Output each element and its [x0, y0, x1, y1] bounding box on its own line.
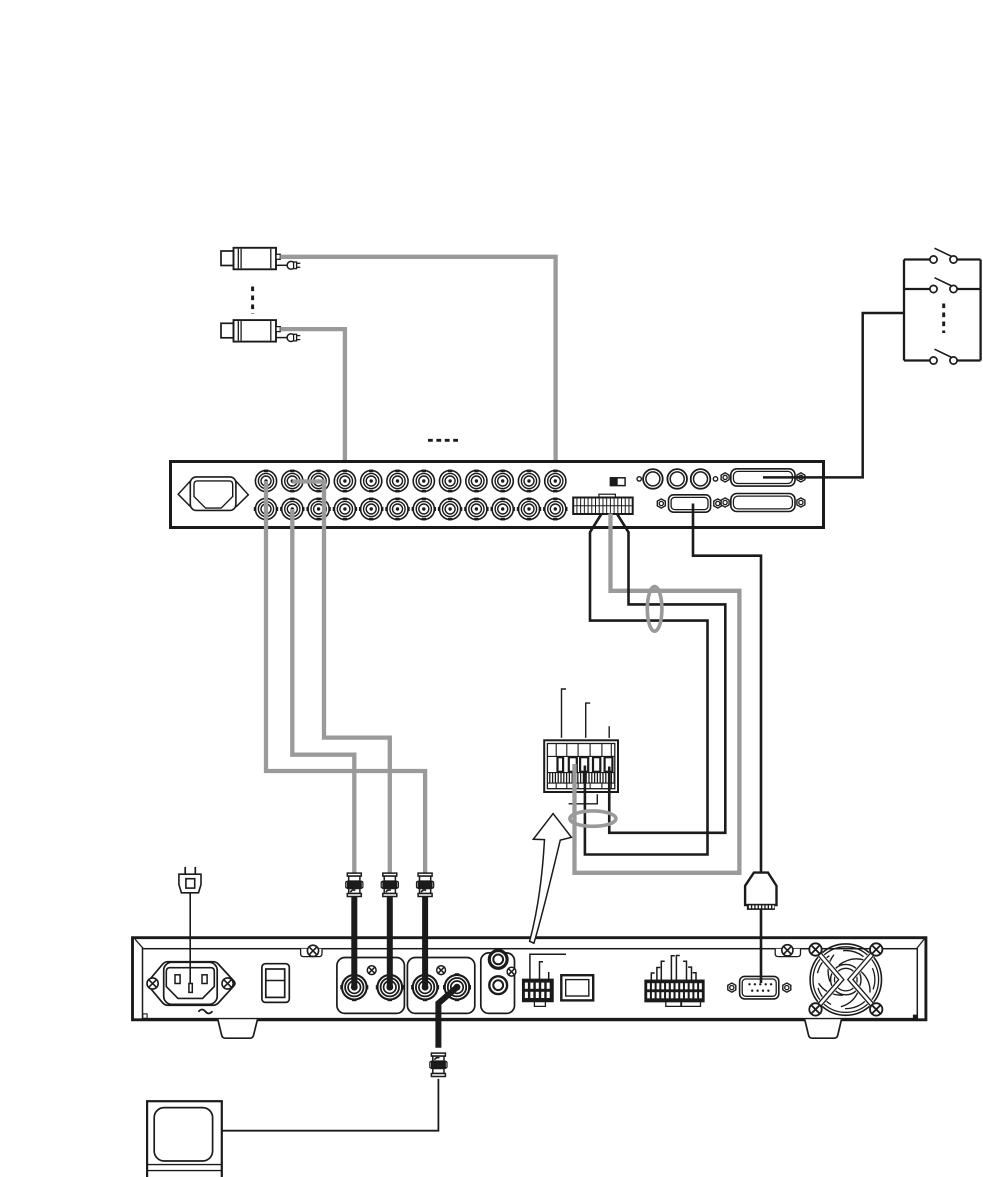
plugged coax dot 2	[386, 984, 393, 991]
matrix IEC power inlet	[178, 477, 248, 511]
matrix config slide switch	[610, 478, 625, 486]
zoom arrow to detail block	[530, 814, 572, 944]
DVR power switch	[262, 964, 289, 1003]
wire DB25 to alarm switch box	[763, 313, 904, 477]
DB9 cable hood connector	[745, 873, 776, 910]
monitor	[147, 1101, 222, 1177]
DVR rear panel	[133, 938, 926, 1020]
black alarm wire B	[609, 514, 725, 833]
cable tie ellipse upper	[647, 587, 662, 632]
DVR cooling fan	[810, 944, 881, 1015]
cable to monitor	[222, 1079, 438, 1131]
alarm switch box	[904, 248, 981, 364]
detail plug-in terminal block (zoom view)	[544, 740, 618, 792]
dashed indicator: more cameras	[251, 287, 254, 315]
DVR audio group	[481, 951, 516, 1014]
plugged coax dot 3	[422, 984, 429, 991]
coax DVR monitor out	[438, 984, 460, 1048]
DVR alarm terminal large	[645, 956, 704, 1007]
black alarm wire A	[585, 514, 708, 855]
matrix alarm terminal strip	[573, 494, 633, 514]
inline BNC connector 3	[417, 873, 434, 987]
power cord wall plug to DVR	[189, 893, 191, 983]
DVR video input group 1	[337, 958, 405, 1014]
DVR RS-232 DB9	[728, 976, 791, 999]
mains tilde symbol	[198, 1010, 212, 1014]
DVR video input group 2	[407, 958, 474, 1014]
coax matrix out 2 top to DVR input	[292, 482, 390, 875]
DVR foot right	[805, 1019, 842, 1038]
matrix switcher rear panel	[171, 462, 824, 528]
serial cable matrix DB9 to DVR DB9	[693, 504, 761, 984]
camera 1	[221, 248, 280, 269]
matrix BNC video inputs 2x12	[254, 470, 568, 521]
DVR ethernet port	[561, 975, 593, 1000]
wire label below detail block	[569, 794, 598, 804]
inline BNC connector 2	[381, 873, 398, 987]
dashed indicator: more coax cables	[428, 439, 458, 442]
fan guard and screws	[809, 943, 882, 1015]
inline BNC connector 1	[346, 873, 363, 987]
wire labels above detail block	[562, 689, 610, 738]
wall plug	[179, 867, 201, 893]
camera 2 power plug	[276, 334, 300, 342]
matrix DB25 port 2	[721, 494, 805, 512]
coax matrix out 1 to DVR input (crossover)	[266, 481, 425, 874]
matrix RS-232 DB9 port	[657, 495, 722, 512]
camera 1 power plug	[276, 261, 300, 269]
DVR IEC power inlet	[147, 962, 234, 1006]
matrix audio jacks	[637, 469, 718, 489]
coax matrix out 2 bottom to DVR input	[292, 509, 354, 874]
inline BNC connector 4	[430, 1053, 447, 1076]
camera 2	[221, 320, 280, 342]
DVR alarm terminal small	[523, 954, 566, 1006]
coax camera 2 to matrix input 4	[280, 329, 345, 481]
matrix DB25 port 1	[721, 469, 805, 486]
gray wire: matrix terminal to detail block	[575, 514, 740, 873]
cable tie ellipse lower	[570, 811, 616, 826]
coax camera 1 to matrix input 12	[280, 257, 555, 481]
DVR foot left	[218, 1019, 258, 1038]
plugged coax dot 1	[351, 984, 358, 991]
